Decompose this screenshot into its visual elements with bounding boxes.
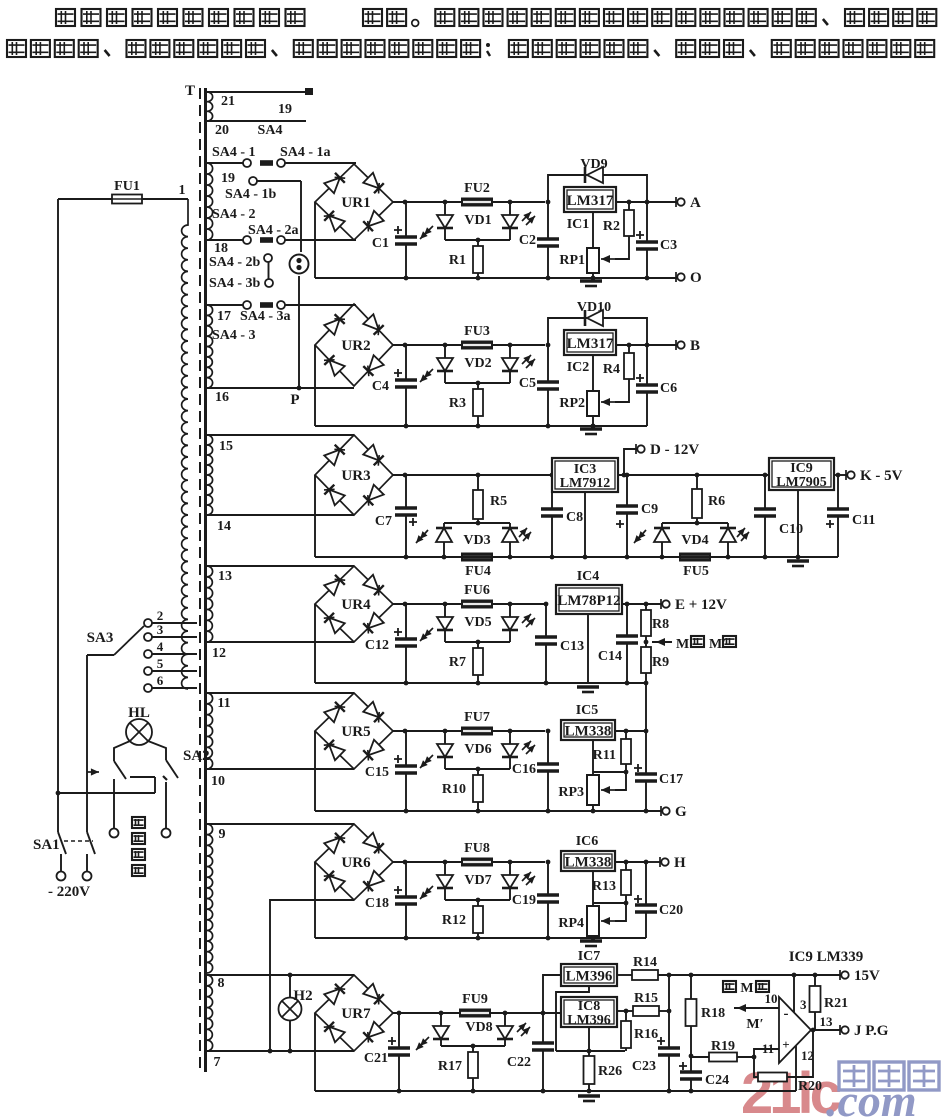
capacitor C11	[836, 473, 841, 478]
transformer winding 9-8	[207, 824, 213, 973]
terminal G	[660, 806, 662, 816]
svg-text:LM7912: LM7912	[560, 476, 611, 491]
capacitor C21	[398, 1013, 400, 1048]
svg-text:R9: R9	[652, 655, 669, 670]
resistor R20	[758, 1073, 787, 1082]
wire VD3 top	[444, 522, 510, 524]
resistor R4	[628, 345, 630, 353]
wire stage4 rail	[315, 682, 646, 684]
wire UR4 left to rail	[314, 604, 316, 683]
resistor R26	[588, 1051, 590, 1056]
wire UR3 left to rail	[314, 475, 316, 557]
svg-text:SA4 - 3: SA4 - 3	[212, 328, 256, 343]
svg-text:.com: .com	[826, 1075, 917, 1117]
wire stage4 to stage5	[645, 683, 647, 731]
svg-text:SA2: SA2	[183, 748, 210, 764]
capacitor C19	[546, 860, 551, 865]
capacitor C15	[405, 731, 407, 766]
resistor R15	[617, 1010, 633, 1012]
svg-text:FU7: FU7	[464, 710, 490, 725]
svg-text:R3: R3	[449, 396, 466, 411]
wire regulator out	[615, 730, 646, 732]
svg-text:R2: R2	[603, 219, 620, 234]
svg-text:D - 12V: D - 12V	[650, 442, 699, 458]
wire stage3 mid	[618, 474, 771, 476]
capacitor C24	[690, 1056, 692, 1072]
terminal A	[675, 197, 677, 207]
ground stage2	[580, 427, 602, 430]
svg-text:G: G	[675, 804, 687, 820]
terminal J.P.G	[839, 1025, 841, 1035]
svg-text:IC2: IC2	[567, 360, 590, 375]
regulator IC4 LM78P12	[556, 585, 622, 614]
wire tap 16 to UR2 bottom	[206, 387, 354, 389]
diode LED left of VD6	[443, 729, 448, 734]
ground stage4	[577, 685, 599, 688]
svg-text:J P.G: J P.G	[854, 1023, 889, 1039]
diode VD4 left	[661, 523, 663, 528]
wire R20 to output	[787, 1030, 813, 1077]
resistor R16	[625, 1011, 627, 1021]
capacitor C8	[550, 473, 555, 478]
svg-text:R13: R13	[592, 879, 616, 894]
wire to R20	[754, 1057, 758, 1077]
wire stage3 main	[393, 474, 552, 476]
bridge rectifier UR2	[315, 304, 393, 386]
node out2	[645, 200, 650, 205]
wire regulator out	[615, 861, 646, 863]
transformer winding 15-14	[207, 435, 213, 515]
pin 12 ground	[795, 1046, 797, 1091]
bridge rectifier UR1	[315, 164, 393, 240]
resistor R13	[625, 862, 627, 870]
svg-text:4: 4	[157, 639, 164, 654]
diode LED left of VD1	[443, 200, 448, 205]
svg-text:SA4 - 1: SA4 - 1	[212, 145, 256, 160]
capacitor C13	[544, 602, 549, 607]
pin 3 supply	[793, 975, 795, 1012]
svg-text:C19: C19	[512, 893, 536, 908]
svg-text:SA4: SA4	[258, 123, 283, 138]
svg-text:IC3: IC3	[574, 462, 597, 477]
wire stage6 rail	[315, 937, 646, 939]
svg-text:R14: R14	[633, 955, 657, 970]
wire UR7 left to rail	[314, 1013, 316, 1091]
wire stage1 rail	[315, 277, 677, 279]
wire UR6 left to rail	[314, 862, 316, 938]
node M	[644, 640, 649, 645]
wire gnd bus	[556, 1050, 625, 1052]
op-amp regulator U 2 LM317	[564, 330, 616, 355]
resistor R10	[477, 769, 479, 775]
svg-text:IC8: IC8	[578, 999, 601, 1014]
ground stage7	[578, 1094, 600, 1097]
svg-text:16: 16	[215, 390, 229, 405]
diode VD4 right	[727, 523, 729, 528]
svg-text:UR2: UR2	[341, 338, 370, 354]
svg-text:B: B	[690, 338, 700, 354]
terminal B	[675, 340, 677, 350]
potentiometer RP4	[592, 871, 594, 906]
svg-text:C24: C24	[705, 1073, 729, 1088]
svg-text:C17: C17	[659, 772, 683, 787]
wire to K terminal	[834, 474, 847, 476]
svg-text:20: 20	[215, 123, 229, 138]
svg-text:C8: C8	[566, 510, 583, 525]
capacitor C17	[645, 731, 647, 774]
svg-text:C2: C2	[519, 233, 536, 248]
svg-text:3: 3	[157, 622, 164, 637]
svg-text:VD6: VD6	[464, 742, 491, 757]
svg-text:R5: R5	[490, 494, 507, 509]
svg-text:R26: R26	[598, 1064, 622, 1079]
svg-text:VD2: VD2	[464, 356, 491, 371]
arrow on SA3 wire	[87, 771, 99, 773]
svg-text:10: 10	[765, 991, 778, 1006]
wire stage6 out to H	[646, 861, 661, 863]
switch SA4-2b contact	[264, 254, 272, 262]
svg-text:R1: R1	[449, 253, 466, 268]
svg-text:C20: C20	[659, 903, 683, 918]
svg-text:C15: C15	[365, 765, 389, 780]
fuse FU9	[459, 1009, 491, 1018]
wire regulator out	[616, 201, 676, 203]
capacitor C22	[541, 1011, 546, 1016]
svg-text:12: 12	[212, 646, 226, 661]
wire SA4-1b to P	[300, 181, 302, 252]
svg-text:3: 3	[800, 997, 807, 1012]
wire SA3 to SA1	[86, 655, 88, 832]
capacitor C16	[546, 729, 551, 734]
svg-text:VD10: VD10	[577, 300, 611, 315]
wire stage4 out	[622, 603, 662, 605]
capacitor C14	[626, 604, 628, 636]
wire main	[491, 730, 545, 732]
diode LED right of VD2	[508, 343, 513, 348]
node out1	[624, 860, 629, 865]
capacitor C9	[625, 473, 630, 478]
capacitor C3	[646, 202, 648, 242]
switch SA3	[144, 619, 152, 627]
fuse FU2	[461, 198, 493, 207]
transformer T core	[199, 88, 201, 1068]
svg-text:UR4: UR4	[341, 597, 371, 613]
node out1	[627, 200, 632, 205]
node out R8	[644, 602, 649, 607]
wire LED pair bottom	[445, 239, 510, 241]
svg-text:IC4: IC4	[577, 569, 600, 584]
svg-text:19: 19	[221, 171, 235, 186]
terminal O	[675, 272, 677, 282]
bridge rectifier UR3	[315, 435, 393, 515]
diode LED right of VD1	[508, 200, 513, 205]
resistor R8	[645, 604, 647, 610]
vertical C23 feed	[668, 975, 670, 1048]
transformer winding 11-10	[207, 693, 213, 769]
svg-text:M′: M′	[746, 1017, 763, 1032]
svg-text:+: +	[782, 1037, 789, 1052]
resistor R17	[471, 1044, 476, 1049]
svg-text:VD7: VD7	[464, 873, 491, 888]
svg-text:UR1: UR1	[341, 195, 370, 211]
wire main	[393, 344, 463, 346]
pin 13 output	[811, 1029, 841, 1031]
svg-text:UR5: UR5	[341, 724, 370, 740]
svg-text:9: 9	[219, 827, 226, 842]
node bridge output	[403, 200, 408, 205]
capacitor C10	[763, 473, 768, 478]
capacitor C6	[646, 345, 648, 385]
wire tap 10 to UR5 bottom	[206, 768, 354, 770]
regulator IC3 LM7912	[552, 458, 618, 492]
resistor R7	[477, 642, 479, 648]
svg-text:R18: R18	[701, 1006, 725, 1021]
diode VD9 bypass	[548, 175, 647, 202]
svg-text:H: H	[674, 855, 686, 871]
wire tap 7 to UR7 bottom	[206, 1050, 354, 1052]
capacitor C5	[546, 343, 551, 348]
svg-text:- 220V: - 220V	[48, 884, 90, 900]
switch SA4-1 contact row	[206, 162, 243, 164]
transformer primary winding	[182, 199, 188, 689]
resistor R9	[645, 642, 647, 647]
potentiometer RP2	[592, 355, 594, 391]
svg-text:LM317: LM317	[567, 193, 614, 209]
svg-text:FU9: FU9	[462, 992, 488, 1007]
svg-text:UR3: UR3	[341, 468, 370, 484]
op-amp regulator U 1 LM317	[564, 187, 616, 212]
wire main after FU9	[491, 1012, 561, 1014]
svg-text:SA1: SA1	[33, 837, 60, 853]
svg-text:IC9 LM339: IC9 LM339	[789, 949, 864, 965]
svg-text:R7: R7	[449, 655, 466, 670]
svg-text:SA4 - 2: SA4 - 2	[212, 207, 256, 222]
switch SA4-3b contact	[268, 262, 270, 279]
resistor R6	[695, 473, 700, 478]
resistor R14	[617, 974, 632, 976]
svg-text:FU8: FU8	[464, 841, 490, 856]
comparator IC9 LM339	[779, 997, 811, 1063]
svg-text:C23: C23	[632, 1059, 656, 1074]
fuse FU8	[461, 858, 493, 867]
svg-text:R8: R8	[652, 617, 669, 632]
wire IC7 ground loop	[556, 986, 589, 1051]
wire VD4 top	[662, 522, 728, 524]
svg-text:10: 10	[211, 774, 225, 789]
diode LED left of VD2	[443, 343, 448, 348]
svg-text:VD8: VD8	[465, 1020, 492, 1035]
svg-text:R15: R15	[634, 991, 658, 1006]
svg-text:C22: C22	[507, 1055, 531, 1070]
wire stage7 main	[393, 1012, 459, 1014]
terminal +15V	[839, 970, 841, 980]
terminal K -5V	[845, 470, 847, 480]
regulator IC8 LM396	[561, 997, 617, 1027]
watermark dianziwang	[839, 1062, 869, 1090]
resistor R18	[689, 973, 694, 978]
regulator IC7 LM396	[561, 964, 617, 986]
diode LED right of VD7	[508, 860, 513, 865]
svg-text:C4: C4	[372, 379, 389, 394]
svg-text:O: O	[690, 270, 702, 286]
diode LED left of VD5	[443, 602, 448, 607]
transformer winding 13-12	[207, 566, 213, 642]
wire tap 9 to UR6 top	[206, 823, 354, 825]
wire SA2 to SA1 node	[58, 792, 155, 794]
capacitor C2	[546, 200, 551, 205]
svg-text:6: 6	[157, 673, 164, 688]
svg-text:11: 11	[217, 696, 230, 711]
svg-text:2: 2	[157, 608, 164, 623]
svg-text:15: 15	[219, 439, 233, 454]
fuse FU7	[461, 727, 493, 736]
switch SA4-2a contact row	[206, 239, 243, 241]
wire IC8 ground	[588, 1027, 590, 1051]
svg-text:UR6: UR6	[341, 855, 371, 871]
wire mains top	[58, 198, 112, 200]
wire to comparator plus input	[754, 1049, 779, 1057]
node P	[297, 386, 302, 391]
wire main	[393, 861, 463, 863]
transformer winding 21-20	[207, 92, 213, 121]
transformer winding 17-16	[207, 305, 213, 388]
node out2	[644, 860, 649, 865]
resistor R1	[477, 240, 479, 246]
svg-text:RP4: RP4	[558, 916, 584, 931]
svg-text:FU3: FU3	[464, 324, 490, 339]
svg-text:R16: R16	[634, 1027, 658, 1042]
fuse FU1	[112, 195, 142, 204]
svg-text:LM317: LM317	[567, 336, 614, 352]
svg-text:C5: C5	[519, 376, 536, 391]
diode LED right of VD6	[508, 729, 513, 734]
wire UR2 left to rail	[314, 345, 316, 426]
diode LED VD8 left	[439, 1011, 444, 1016]
jack socket	[290, 255, 309, 274]
svg-text:-: -	[784, 1006, 789, 1022]
svg-text:18: 18	[214, 241, 228, 256]
svg-text:C9: C9	[641, 502, 658, 517]
svg-text:P: P	[290, 392, 299, 408]
diode VD3 right	[509, 523, 511, 528]
potentiometer RP3	[592, 740, 594, 775]
wire tap 14 to UR3 bottom	[206, 514, 354, 516]
svg-text:C6: C6	[660, 381, 677, 396]
wire tap 13 to UR4 top	[206, 565, 354, 567]
capacitor C12	[405, 604, 407, 639]
svg-text:LM78P12: LM78P12	[557, 593, 620, 609]
svg-text:R4: R4	[603, 362, 620, 377]
pin 10 minus input	[734, 1007, 779, 1009]
resistor R2	[628, 202, 630, 210]
wire main	[491, 603, 545, 605]
svg-text:C13: C13	[560, 639, 584, 654]
resistor R11	[625, 731, 627, 739]
svg-text:C7: C7	[375, 514, 392, 529]
fuse FU4	[461, 553, 493, 562]
bridge rectifier UR7	[315, 975, 393, 1051]
node bridge output	[403, 860, 408, 865]
bridge rectifier UR6	[315, 824, 393, 900]
svg-text:FU6: FU6	[464, 583, 490, 598]
svg-text:FU4: FU4	[465, 564, 491, 579]
svg-text:R17: R17	[438, 1059, 462, 1074]
svg-text:R10: R10	[442, 782, 466, 797]
svg-text:K - 5V: K - 5V	[860, 468, 903, 484]
wire to IC7	[543, 975, 561, 1013]
svg-text:11: 11	[762, 1041, 774, 1056]
wire tap 15 to UR3 top	[206, 434, 354, 436]
wire LED pair bottom	[445, 899, 510, 901]
capacitor C20	[645, 862, 647, 905]
terminal E +12V	[660, 599, 662, 609]
svg-text:14: 14	[217, 519, 231, 534]
wire main	[491, 201, 545, 203]
node out1	[627, 343, 632, 348]
diode LED left of VD7	[443, 860, 448, 865]
resistor R21	[813, 973, 818, 978]
resistor R12	[477, 900, 479, 906]
node bridge output	[403, 602, 408, 607]
svg-text:C21: C21	[364, 1051, 388, 1066]
diode LED right of VD5	[508, 602, 513, 607]
svg-text:H2: H2	[293, 988, 312, 1004]
svg-text:SA4 - 1a: SA4 - 1a	[280, 145, 331, 160]
node bridge output	[403, 729, 408, 734]
capacitor C1	[405, 202, 407, 237]
resistor R19	[691, 1056, 709, 1058]
svg-text:SA4 - 2b: SA4 - 2b	[209, 255, 261, 270]
regulator IC6 LM338	[561, 851, 615, 871]
wire mains left vertical	[57, 199, 59, 832]
ground stage1	[580, 279, 602, 282]
svg-text:FU5: FU5	[683, 564, 709, 579]
svg-text:SA4 - 1b: SA4 - 1b	[225, 187, 277, 202]
resistor R5	[476, 473, 481, 478]
wire LED pair bottom	[445, 382, 510, 384]
node R18 bottom	[689, 1054, 694, 1059]
wire stage3 rail	[315, 556, 838, 558]
resistor R3	[477, 383, 479, 389]
svg-text:T: T	[185, 83, 195, 99]
wire main	[393, 603, 463, 605]
svg-text:12: 12	[801, 1048, 814, 1063]
svg-text:R21: R21	[824, 996, 848, 1011]
svg-text:8: 8	[218, 976, 225, 991]
wire VD8 bottom	[441, 1045, 505, 1047]
svg-text:SA4 - 2a: SA4 - 2a	[248, 223, 299, 238]
ground stage6	[580, 939, 602, 942]
svg-text:LM338: LM338	[565, 723, 612, 739]
capacitor C4	[405, 345, 407, 380]
svg-text:R12: R12	[442, 913, 466, 928]
capacitor C23	[658, 1048, 680, 1055]
ground stage3	[787, 559, 809, 562]
wire tap 8 to UR7 top	[206, 974, 354, 976]
svg-text:R20: R20	[798, 1079, 822, 1094]
lamp H2	[289, 975, 291, 998]
svg-text:15V: 15V	[854, 968, 880, 984]
svg-text:1: 1	[179, 183, 186, 198]
terminal D -12V	[622, 473, 627, 478]
svg-text:13: 13	[218, 569, 232, 584]
svg-text:LM7905: LM7905	[776, 475, 827, 490]
svg-text:R19: R19	[711, 1039, 735, 1054]
node H2 tap	[288, 973, 293, 978]
switch SA2	[114, 761, 126, 779]
diode LED VD8 right	[503, 1011, 508, 1016]
wire regulator out	[616, 344, 676, 346]
